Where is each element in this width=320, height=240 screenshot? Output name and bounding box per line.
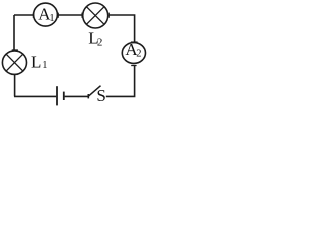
- svg-text:L: L: [31, 53, 41, 72]
- svg-text:1: 1: [42, 60, 47, 71]
- svg-text:S: S: [96, 86, 105, 105]
- svg-text:1: 1: [49, 13, 54, 24]
- svg-text:2: 2: [97, 37, 103, 49]
- svg-text:2: 2: [136, 49, 141, 60]
